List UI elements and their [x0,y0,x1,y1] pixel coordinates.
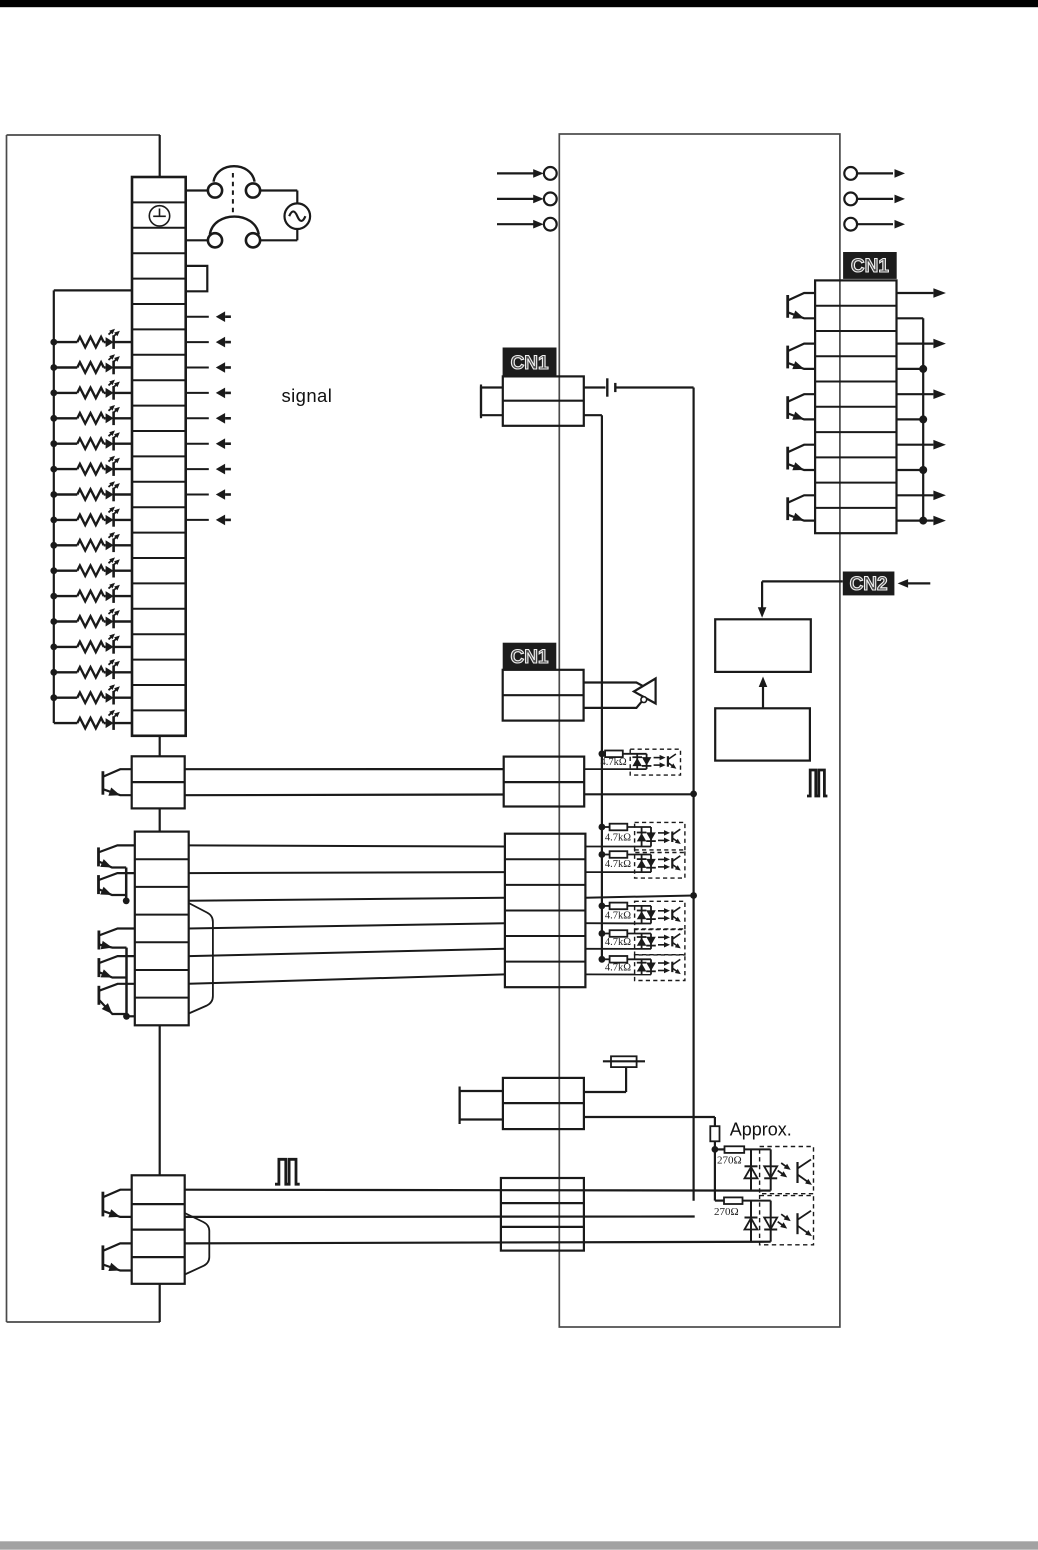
svg-text:270Ω: 270Ω [714,1206,739,1218]
svg-text:Approx.: Approx. [730,1119,792,1139]
svg-text:CN1: CN1 [851,256,889,277]
svg-text:4.7kΩ: 4.7kΩ [605,859,631,870]
svg-text:4.7kΩ: 4.7kΩ [605,911,631,922]
svg-text:4.7kΩ: 4.7kΩ [605,963,631,974]
svg-text:signal: signal [282,385,333,406]
svg-text:CN1: CN1 [511,353,549,374]
svg-text:CN1: CN1 [510,647,548,668]
svg-text:270Ω: 270Ω [717,1154,742,1166]
svg-text:4.7kΩ: 4.7kΩ [605,833,631,844]
svg-text:4.7kΩ: 4.7kΩ [601,757,627,768]
svg-text:4.7kΩ: 4.7kΩ [605,937,631,948]
svg-text:CN2: CN2 [850,574,888,595]
